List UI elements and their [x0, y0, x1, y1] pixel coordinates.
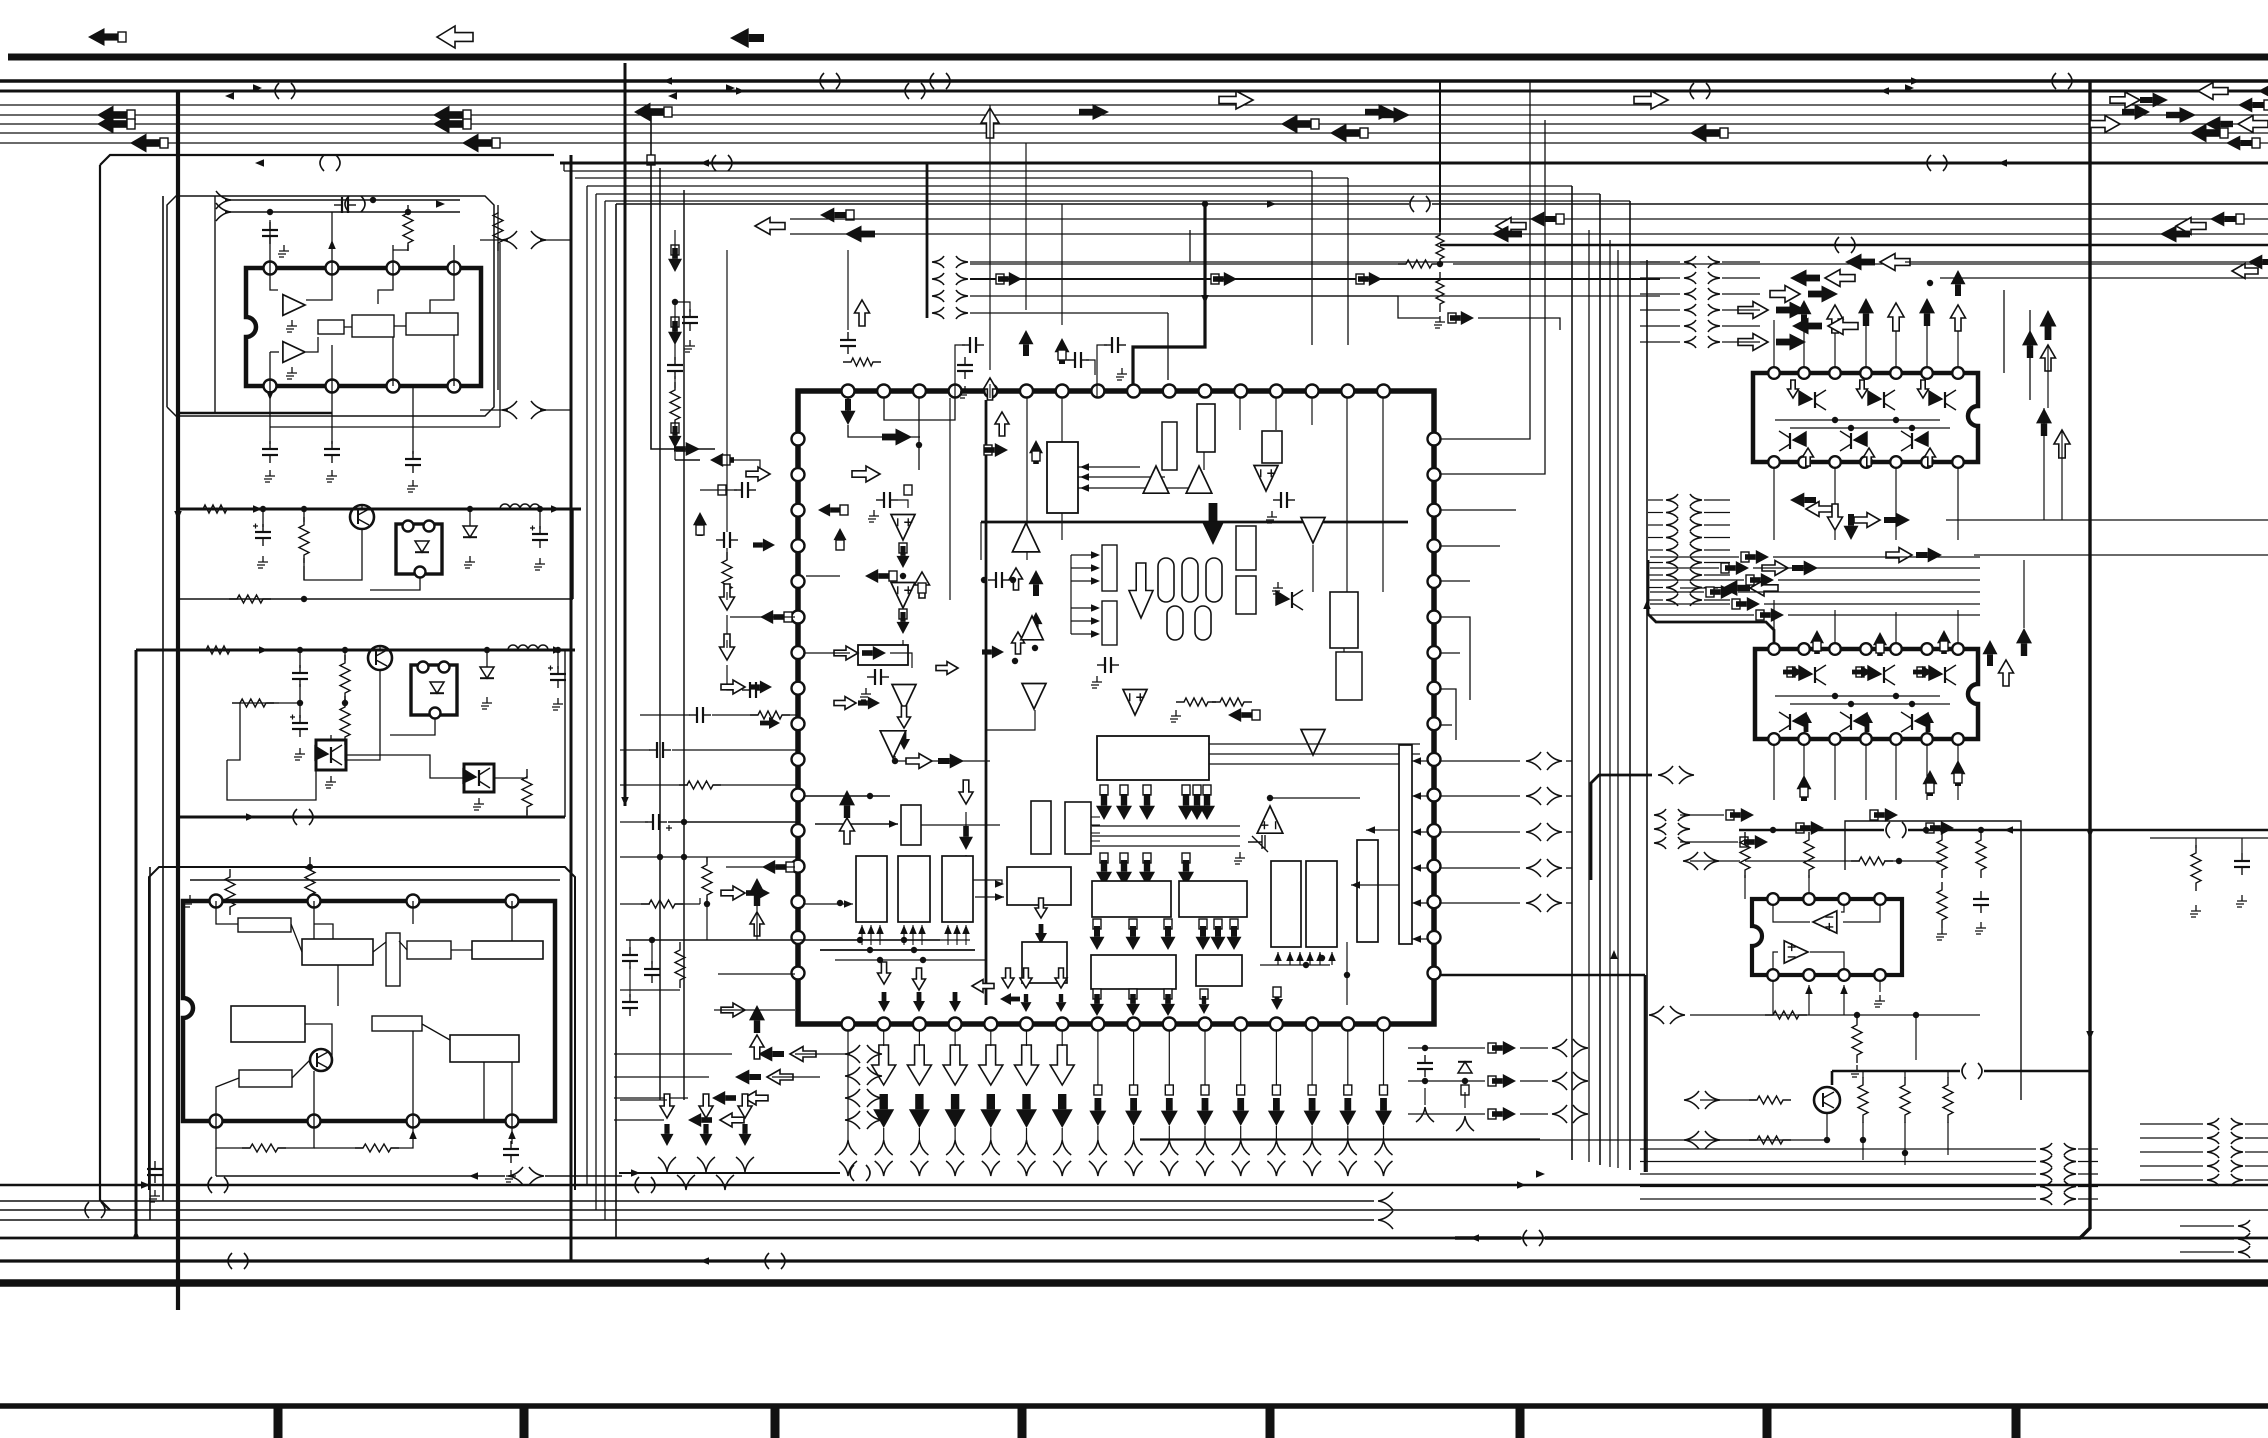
wire [921, 824, 1000, 826]
wire [1831, 1071, 1834, 1085]
signal arrow [1725, 561, 1749, 575]
wire [902, 640, 904, 645]
pin P4 [418, 662, 429, 673]
net tag [1143, 853, 1151, 863]
arrowhead [436, 200, 445, 208]
connector [1547, 787, 1562, 805]
wire [1275, 1126, 1277, 1140]
wire U101 [306, 268, 332, 300]
pin U501.l6 [792, 611, 805, 624]
arrowhead [858, 925, 866, 934]
signal arrow [1227, 926, 1242, 950]
signal arrow [834, 528, 847, 550]
signal arrow (open) [984, 378, 997, 400]
wire [1441, 617, 1470, 700]
connector P501 [932, 273, 944, 285]
connector [1196, 1161, 1214, 1176]
wire bus [0, 123, 2268, 125]
wire [1704, 587, 1730, 589]
wire [730, 460, 760, 470]
wire [1775, 419, 1940, 421]
wire [966, 855, 1002, 884]
wire [1926, 320, 1928, 367]
net tag [918, 583, 926, 593]
signal arrow (open) [1012, 632, 1025, 654]
wire [494, 776, 527, 778]
arrowhead [995, 880, 1004, 888]
junction [857, 937, 863, 943]
capacitor C16 [667, 357, 683, 379]
connector [1378, 1211, 1393, 1229]
pin U501.b10 [1163, 1018, 1176, 1031]
pin U501.b15 [1341, 1018, 1354, 1031]
wire [918, 398, 920, 470]
wire [672, 749, 798, 751]
transistor Q301 regulator [368, 646, 392, 670]
pin U501.b4 [949, 1018, 962, 1031]
arrowhead [631, 1169, 640, 1177]
wire [895, 756, 990, 761]
pin U501.r5 [1428, 575, 1441, 588]
wire [557, 650, 559, 669]
signal arrow [1268, 1098, 1285, 1126]
wire break [1962, 1063, 1982, 1079]
pin U501.b5 [984, 1018, 997, 1031]
wire [651, 112, 715, 449]
arrowhead [867, 925, 875, 934]
signal arrow [1056, 994, 1067, 1012]
junction [260, 506, 266, 512]
transistor U602 Q1884 [1868, 665, 1895, 685]
signal arrow [1271, 990, 1283, 1010]
arrowhead [668, 92, 677, 100]
resistor R6 [1212, 698, 1252, 706]
connector P610 [2231, 1174, 2243, 1186]
wire [345, 670, 380, 760]
signal arrow [1096, 794, 1112, 820]
net tag [1360, 128, 1368, 138]
junction [537, 506, 543, 512]
signal arrow (open) [1055, 968, 1067, 988]
net tag [1120, 785, 1128, 795]
connector [1267, 1161, 1285, 1176]
signal arrow [1690, 124, 1720, 143]
wire [499, 243, 501, 427]
signal arrow [712, 1091, 736, 1105]
junction [1422, 1045, 1428, 1051]
wire [1704, 574, 1730, 576]
wire [412, 386, 414, 454]
arrowhead [1091, 630, 1100, 638]
wire [620, 749, 650, 751]
wire [1640, 1198, 2036, 1200]
signal arrow (open) [1828, 318, 1858, 335]
signal arrow (open) [1918, 380, 1929, 398]
wire [956, 925, 958, 945]
net tag [696, 525, 704, 535]
pin U603.1 [1767, 893, 1779, 905]
junction [484, 647, 490, 653]
junction [649, 937, 655, 943]
wire [804, 795, 890, 797]
wire [1843, 985, 1845, 1015]
signal arrow [2122, 104, 2150, 120]
capacitor C20 [689, 707, 711, 723]
wire [216, 1175, 505, 1177]
signal arrow (open) [720, 584, 735, 610]
ground [278, 245, 289, 257]
signal arrow [1530, 212, 1556, 227]
block U501 cnt2 [1065, 802, 1091, 854]
pin U602.12 [1829, 733, 1841, 745]
signal arrow [1919, 298, 1935, 326]
resistor R7 [843, 358, 881, 366]
wire [790, 218, 2268, 220]
signal arrow [730, 28, 764, 48]
resistor R21 [1976, 832, 1986, 878]
signal arrow [878, 992, 890, 1012]
junction [867, 947, 873, 953]
signal arrow [760, 610, 784, 624]
wire [379, 646, 381, 650]
wire break [293, 809, 313, 825]
pin 1 [264, 262, 277, 275]
connector [845, 1089, 860, 1107]
wire [605, 200, 1630, 202]
net tag [1746, 575, 1754, 585]
wire U401 [292, 1060, 310, 1078]
signal arrow [1035, 924, 1047, 944]
signal arrow [1744, 835, 1768, 849]
wire [965, 925, 967, 945]
junction [1927, 280, 1933, 286]
connector [1705, 1091, 1720, 1109]
signal arrow [1196, 926, 1211, 950]
capacitor C19 [742, 682, 764, 698]
connector P603 [1666, 582, 1678, 594]
net tag [840, 505, 848, 515]
wire [190, 879, 560, 881]
junction [1893, 693, 1899, 699]
wire [2140, 1151, 2203, 1153]
signal arrow [753, 539, 775, 552]
connector [697, 1157, 715, 1172]
wire [700, 489, 737, 491]
wire [1133, 1126, 1135, 1140]
wire bus bottom [0, 1209, 2268, 1211]
wire [1189, 230, 1191, 262]
arrowhead [995, 893, 1004, 901]
pin U601.12 [1829, 456, 1841, 468]
arrowhead [1998, 159, 2007, 167]
signal arrow (open) [2176, 218, 2206, 235]
resistor R11 [670, 382, 680, 428]
arrowhead [918, 925, 926, 934]
net tag [1876, 643, 1884, 653]
signal arrow (open) [1738, 302, 1768, 319]
wire title-block tick [771, 1406, 780, 1438]
arrowhead [663, 77, 672, 85]
IC U601 [1753, 373, 1978, 462]
wire [1133, 1031, 1135, 1090]
connector P610 [2231, 1146, 2243, 1158]
wire break [1886, 822, 1906, 838]
wire [2180, 1225, 2234, 1227]
wire [1071, 554, 1098, 556]
net tag [1230, 919, 1238, 929]
signal arrow [979, 1045, 1003, 1085]
wire [1440, 244, 2268, 246]
wire U401 [337, 965, 339, 1006]
signal arrow (open) [2232, 264, 2258, 279]
signal arrow (open) [995, 412, 1009, 436]
signal arrow [634, 103, 664, 122]
arrowhead [1296, 952, 1304, 961]
signal arrow [661, 1124, 674, 1146]
wire [1204, 1126, 1206, 1140]
connector [867, 1067, 882, 1085]
pin U501.t13 [1270, 385, 1283, 398]
wire [714, 1009, 795, 1011]
capacitor C202 [530, 526, 548, 549]
junction [1824, 1137, 1830, 1143]
connector [677, 1175, 695, 1190]
wire bus bottom [0, 1219, 1374, 1221]
polarity mark [666, 825, 672, 831]
wire [1441, 902, 1520, 904]
wire heavy separator [0, 1279, 2268, 1287]
wire [624, 63, 627, 806]
signal arrow [2016, 628, 2032, 656]
wire bus [0, 142, 2268, 144]
connector P603 [1666, 494, 1678, 506]
signal arrow [949, 992, 961, 1012]
net tag [492, 138, 500, 148]
wire [1351, 884, 1399, 886]
wire [1346, 942, 1348, 1005]
wire U501 internal bus [985, 400, 988, 1005]
wire [1745, 860, 1860, 862]
connector [875, 1140, 893, 1155]
wire [756, 897, 758, 940]
wire [497, 245, 499, 390]
pin U603.3 [1838, 893, 1850, 905]
arrowhead [1080, 473, 1089, 481]
net tag [1143, 785, 1151, 795]
wire [1790, 427, 1950, 429]
ground [1936, 928, 1947, 940]
pin U603.7 [1803, 969, 1815, 981]
wire [1865, 320, 1867, 367]
wire [1086, 360, 1095, 375]
resistor R101 [403, 205, 413, 251]
wire bus [0, 114, 2268, 116]
signal arrow (open) [1864, 448, 1875, 466]
pin U601.11 [1860, 456, 1872, 468]
connector P602 [1708, 336, 1720, 348]
signal arrow (open) [1857, 380, 1868, 398]
wire [1957, 610, 1959, 643]
wire [820, 939, 970, 941]
wire [1566, 902, 1572, 904]
connector [1526, 894, 1541, 912]
connector [1303, 1161, 1321, 1176]
pin U602.10 [1890, 733, 1902, 745]
wire [1808, 985, 1810, 1015]
wire [526, 810, 528, 817]
signal arrow [758, 1047, 784, 1062]
pin U501.l7 [792, 646, 805, 659]
signal arrow [907, 1045, 931, 1085]
wire [1071, 607, 1098, 609]
wire [835, 959, 985, 961]
net tag [1237, 1085, 1245, 1095]
arrowhead [266, 391, 274, 400]
wire U401 [314, 924, 333, 939]
connector P607 [2040, 1168, 2052, 1180]
wire [1905, 261, 2268, 263]
wire break [320, 155, 340, 171]
junction [981, 577, 987, 583]
wire U101 [331, 345, 333, 386]
wire U401 [511, 1062, 513, 1121]
signal arrow (open) [699, 1094, 713, 1118]
arrowhead [2086, 829, 2094, 838]
signal arrow [1710, 585, 1734, 599]
wire [267, 702, 300, 704]
wire [2061, 430, 2063, 520]
net tag [118, 32, 126, 42]
wire [1092, 825, 1240, 827]
wire [1648, 524, 1663, 526]
net tag [1726, 810, 1734, 820]
wire [1788, 614, 1980, 616]
net tag [1556, 214, 1564, 224]
signal arrow [1281, 115, 1311, 134]
junction [1462, 1078, 1468, 1084]
signal arrow [1492, 1107, 1516, 1121]
ground [860, 688, 871, 700]
wire [540, 239, 571, 241]
connector [1339, 1161, 1357, 1176]
resistor R24 [1765, 1011, 1807, 1019]
signal arrow [897, 612, 910, 634]
wire bus [0, 79, 2268, 83]
junction [1913, 1012, 1919, 1018]
wire [2043, 408, 2045, 520]
signal arrow (open) [790, 1047, 816, 1062]
arrowhead [174, 511, 182, 520]
wire section border [1845, 821, 2021, 1100]
pin U501.b7 [1056, 1018, 1069, 1031]
signal arrow (open) [1634, 91, 1668, 109]
pin U603.5 [1874, 969, 1886, 981]
wire bus bottom [0, 1184, 2268, 1187]
ground [1266, 511, 1277, 523]
signal arrow (open) [1770, 286, 1800, 303]
wire [1441, 580, 1470, 582]
pin U501.l1 [792, 433, 805, 446]
connector [1375, 1140, 1393, 1155]
ground [286, 367, 297, 379]
pin U602.7 [1952, 643, 1964, 655]
wire [1441, 867, 1520, 869]
signal arrow [749, 878, 765, 906]
wire [1784, 1113, 1827, 1140]
resistor R25 [1852, 1017, 1862, 1063]
wire break [1690, 83, 1710, 99]
resistor R401 [225, 869, 235, 915]
connector [1526, 787, 1541, 805]
wire [2047, 345, 2049, 408]
signal arrow [1790, 493, 1816, 508]
wire [1078, 476, 1165, 478]
wire U401 [399, 941, 407, 950]
wire U401 [313, 901, 315, 939]
block U101 osc [352, 315, 394, 337]
ground [1874, 995, 1885, 1007]
pin U603.6 [1838, 969, 1850, 981]
wire [683, 190, 685, 1100]
block U401 out blk [450, 1035, 519, 1062]
wire [2150, 837, 2268, 839]
signal arrow [1790, 270, 1820, 287]
wire [370, 578, 420, 590]
connector P605 [1654, 809, 1666, 821]
wire [1289, 952, 1291, 965]
connector [531, 401, 546, 419]
connector P602 [1708, 320, 1720, 332]
wire [1025, 143, 1027, 310]
resistor R17 [675, 942, 685, 988]
connector P502 [956, 256, 968, 268]
wire [620, 784, 688, 786]
wire [1061, 513, 1063, 540]
pin U501.t1 [842, 385, 855, 398]
connector P607 [2040, 1156, 2052, 1168]
ground [149, 1190, 160, 1202]
net tag [899, 543, 907, 553]
pin U501.t4 [949, 385, 962, 398]
signal arrow [88, 28, 118, 46]
junction [405, 209, 411, 215]
net tag [1448, 313, 1456, 323]
block U501 out1 [1091, 955, 1176, 989]
wire [985, 710, 1035, 730]
pin U501.l2 [792, 468, 805, 481]
connector [1089, 1161, 1107, 1176]
signal arrow (open) [720, 1113, 744, 1127]
pin U501.b2 [877, 1018, 890, 1031]
pin U602.8 [1952, 733, 1964, 745]
signal arrow [1873, 632, 1887, 656]
resistor R23 [1937, 882, 1947, 928]
wire [2180, 1251, 2234, 1253]
signal arrow [1776, 334, 1806, 351]
net tag [1272, 1085, 1280, 1095]
net tag [2264, 100, 2268, 110]
signal arrow [1845, 254, 1875, 271]
capacitor C9 [1097, 657, 1119, 673]
pin U501.b16 [1377, 1018, 1390, 1031]
wire [975, 896, 1004, 898]
wire [1078, 466, 1140, 468]
signal arrow [1930, 821, 1954, 835]
wire [989, 105, 991, 370]
wire [884, 398, 955, 420]
junction [1437, 261, 1443, 267]
signal arrow (open) [1951, 305, 1966, 331]
